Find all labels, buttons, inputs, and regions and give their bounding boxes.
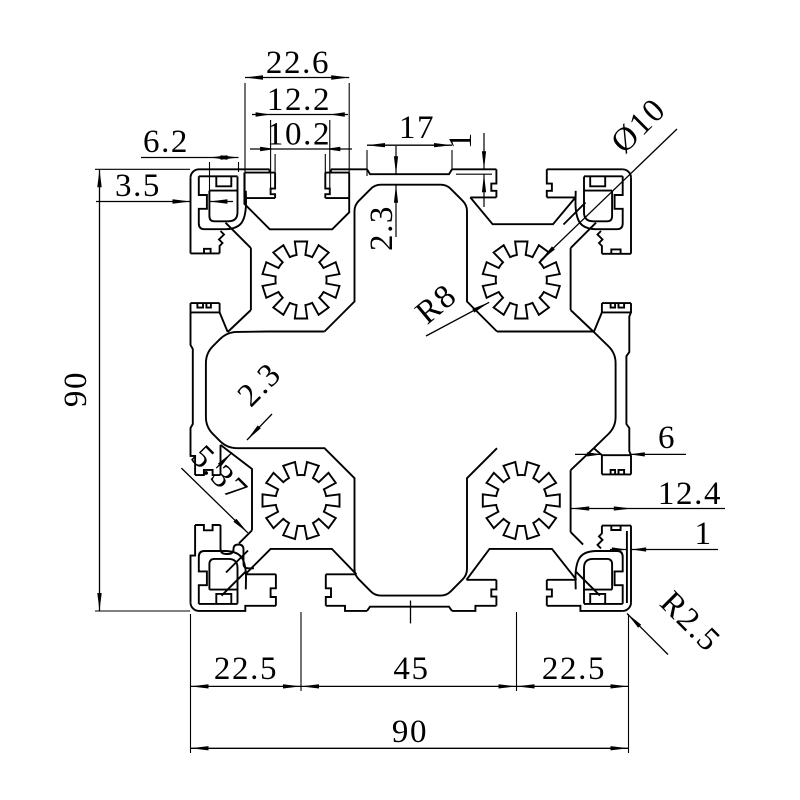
dimension 22.5-45-22.5 xyxy=(191,612,629,753)
corner channel TL xyxy=(199,176,246,229)
T-slot A bottom internals xyxy=(245,549,356,606)
web edge BR xyxy=(576,572,600,596)
dimension 3.5 xyxy=(96,168,233,204)
BR corner recess line xyxy=(626,531,628,603)
profile outer boundary xyxy=(191,169,632,611)
corner channel BR xyxy=(575,551,622,604)
svg-text:3.5: 3.5 xyxy=(115,168,161,204)
dimension 12.4 xyxy=(571,476,725,512)
T-slot A left internals xyxy=(195,445,254,568)
svg-text:12.4: 12.4 xyxy=(658,476,722,512)
dimension 10.2 xyxy=(250,117,352,186)
dimension R2.5 xyxy=(627,585,727,660)
svg-text:22.5: 22.5 xyxy=(214,651,278,687)
dimension 12.2 xyxy=(252,82,348,188)
svg-text:17: 17 xyxy=(399,110,435,146)
dimension 6 xyxy=(575,420,686,457)
web channel line TR xyxy=(564,203,586,225)
slot C top internals xyxy=(470,169,575,224)
svg-text:22.5: 22.5 xyxy=(542,651,606,687)
svg-text:90: 90 xyxy=(392,714,428,750)
dimension R8 xyxy=(409,277,489,336)
gear bore TR xyxy=(483,242,560,319)
dimension 1 right xyxy=(610,516,718,552)
corner channel BL xyxy=(199,551,246,604)
dimension 2.3 top xyxy=(364,146,400,251)
gear bore BR xyxy=(483,462,560,539)
slot C bottom internals xyxy=(467,549,577,606)
svg-text:6: 6 xyxy=(658,420,676,456)
svg-text:6.2: 6.2 xyxy=(143,124,189,160)
svg-text:2.3: 2.3 xyxy=(364,205,400,251)
dimension diameter 10 xyxy=(541,91,678,260)
interior cavity boundary xyxy=(206,185,616,596)
svg-text:90: 90 xyxy=(58,371,94,407)
gear bore TL xyxy=(263,242,340,319)
slot C right-lower internals xyxy=(571,448,631,548)
dimension 90 bottom xyxy=(191,714,629,750)
T-slot A top internals xyxy=(244,169,349,229)
dimension 17 xyxy=(367,110,452,176)
dimension 5.37 xyxy=(181,439,254,533)
dimension 90 left xyxy=(58,169,190,611)
svg-text:1: 1 xyxy=(694,516,712,552)
corner channel TR xyxy=(575,176,622,229)
slot C right-upper internals xyxy=(571,223,631,332)
svg-text:12.2: 12.2 xyxy=(267,82,331,118)
svg-text:10.2: 10.2 xyxy=(267,117,331,153)
svg-text:1: 1 xyxy=(443,131,479,149)
web channel line BL xyxy=(226,551,248,573)
svg-text:22.6: 22.6 xyxy=(266,45,330,81)
gear bore BL xyxy=(263,462,340,539)
svg-text:45: 45 xyxy=(393,651,429,687)
web edge BL xyxy=(222,572,246,596)
slot C left internals xyxy=(191,223,251,332)
dimension 22.6 xyxy=(245,45,349,197)
dimension 6.2 xyxy=(141,124,239,196)
dimension 1 top xyxy=(443,131,492,207)
center mark bottom xyxy=(410,601,412,624)
dimension 2.3 left xyxy=(231,356,289,440)
